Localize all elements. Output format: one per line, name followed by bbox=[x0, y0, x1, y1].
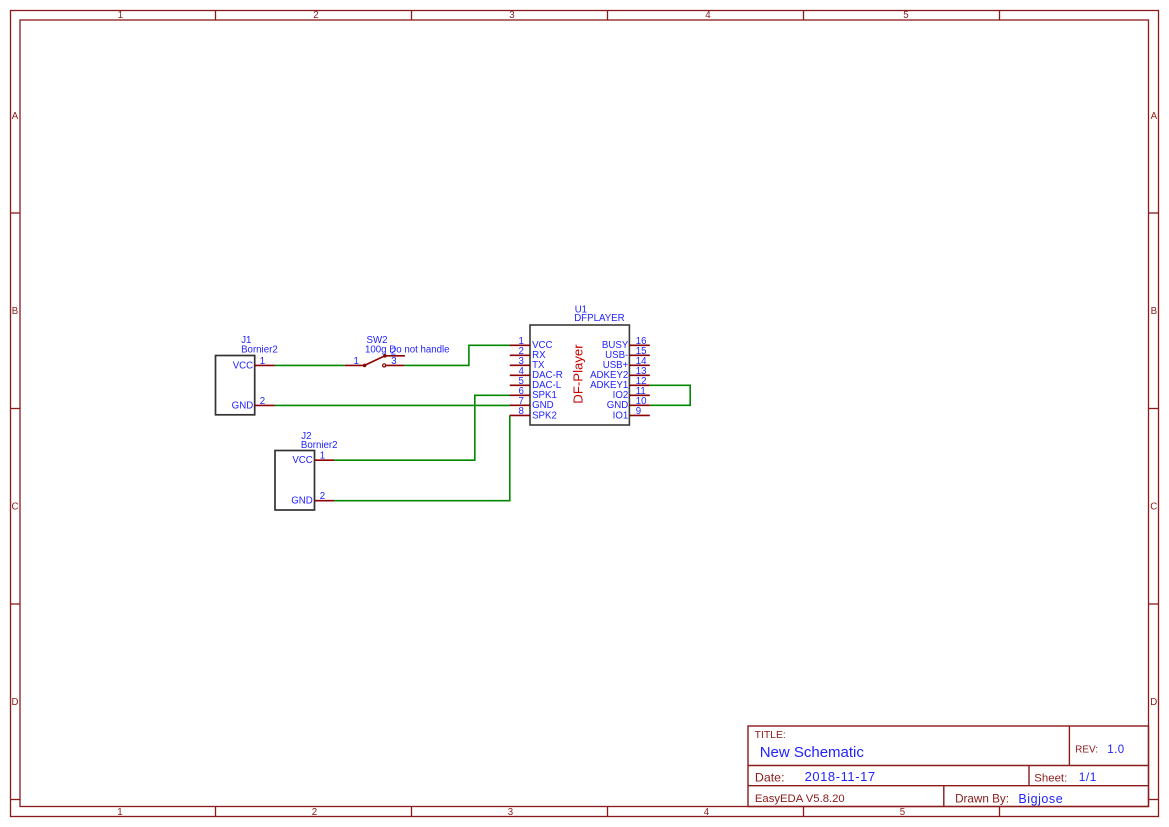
svg-text:TITLE:: TITLE: bbox=[755, 730, 786, 741]
U1 pin 13 stub bbox=[629, 374, 649, 376]
svg-text:A: A bbox=[12, 111, 19, 122]
U1 pin 10 stub bbox=[629, 404, 649, 406]
title block border bbox=[748, 726, 1149, 807]
svg-text:Sheet:: Sheet: bbox=[1034, 773, 1067, 785]
U1 pin 2 stub bbox=[510, 354, 530, 356]
connector J1 body bbox=[216, 356, 255, 415]
frame row letters left bbox=[12, 111, 19, 708]
svg-text:B: B bbox=[1151, 306, 1157, 317]
switch SW2 lever bbox=[365, 356, 385, 366]
svg-text:Bigjose: Bigjose bbox=[1018, 792, 1063, 806]
svg-text:2: 2 bbox=[312, 807, 317, 818]
U1 pin 16 stub bbox=[629, 344, 649, 346]
frame row ticks right bbox=[1149, 213, 1159, 800]
frame row letters right bbox=[1150, 111, 1157, 708]
U1 pin 6 stub bbox=[510, 394, 530, 396]
svg-text:A: A bbox=[1151, 111, 1158, 122]
svg-text:Bornier2: Bornier2 bbox=[241, 345, 278, 356]
svg-text:1: 1 bbox=[320, 451, 325, 462]
svg-text:1/1: 1/1 bbox=[1079, 770, 1097, 784]
switch SW2 pin 3 lead bbox=[386, 364, 405, 366]
svg-text:4: 4 bbox=[704, 807, 710, 818]
svg-text:1: 1 bbox=[354, 356, 359, 367]
svg-text:SPK2: SPK2 bbox=[532, 410, 557, 421]
J2 pin 1 stub bbox=[315, 459, 335, 461]
svg-text:9: 9 bbox=[636, 406, 641, 417]
svg-text:DFPLAYER: DFPLAYER bbox=[574, 313, 624, 324]
svg-text:2018-11-17: 2018-11-17 bbox=[805, 769, 876, 784]
J1 pin 2 stub bbox=[255, 404, 275, 406]
svg-text:1: 1 bbox=[260, 356, 265, 367]
svg-text:C: C bbox=[1150, 501, 1157, 512]
svg-text:Drawn By:: Drawn By: bbox=[955, 793, 1009, 806]
svg-text:EasyEDA V5.8.20: EasyEDA V5.8.20 bbox=[755, 793, 845, 805]
wire U1.12 ADKEY1 to U1.10 GND bbox=[650, 385, 690, 405]
svg-text:5: 5 bbox=[903, 10, 908, 21]
J1 pin 1 stub bbox=[255, 364, 275, 366]
U1 pin 14 stub bbox=[629, 364, 649, 366]
svg-text:4: 4 bbox=[705, 10, 711, 21]
U1 pin 5 stub bbox=[510, 384, 530, 386]
svg-text:2: 2 bbox=[313, 10, 318, 21]
U1 pin 15 stub bbox=[629, 354, 649, 356]
U1 pin 4 stub bbox=[510, 374, 530, 376]
svg-text:3: 3 bbox=[508, 807, 513, 818]
U1 pin 11 stub bbox=[629, 394, 649, 396]
svg-text:8: 8 bbox=[519, 406, 524, 417]
svg-text:D: D bbox=[1150, 697, 1157, 708]
U1 pin 3 stub bbox=[510, 364, 530, 366]
wire J1.2 GND to U1.7 GND bbox=[275, 404, 511, 406]
frame column ticks bottom bbox=[216, 807, 1000, 817]
svg-text:5: 5 bbox=[900, 807, 905, 818]
switch SW2 pin 1 lead bbox=[345, 364, 365, 366]
svg-text:3: 3 bbox=[391, 356, 396, 367]
wire J2.1 VCC to U1.6 SPK1 bbox=[334, 395, 510, 460]
svg-text:IO1: IO1 bbox=[613, 410, 629, 421]
frame column ticks top bbox=[216, 11, 1000, 21]
svg-text:C: C bbox=[12, 501, 19, 512]
IC U1 body bbox=[530, 325, 629, 425]
frame column numbers bottom bbox=[117, 807, 905, 818]
J2 pin 2 stub bbox=[315, 500, 335, 502]
svg-text:REV:: REV: bbox=[1075, 745, 1098, 756]
svg-text:3: 3 bbox=[509, 10, 514, 21]
switch SW2 pin 2 lead bbox=[385, 355, 405, 357]
U1 pin 1 stub bbox=[510, 344, 530, 346]
switch SW2 pin 2 contact dot bbox=[383, 354, 387, 358]
frame row ticks left bbox=[11, 213, 21, 800]
U1 pin 7 stub bbox=[510, 404, 530, 406]
svg-text:New Schematic: New Schematic bbox=[760, 744, 865, 761]
svg-text:1: 1 bbox=[118, 10, 123, 21]
connector J2 body bbox=[275, 451, 315, 511]
svg-text:1: 1 bbox=[117, 807, 122, 818]
svg-text:B: B bbox=[12, 306, 18, 317]
svg-text:2: 2 bbox=[260, 396, 265, 407]
svg-text:GND: GND bbox=[291, 496, 313, 507]
switch SW2 pin 3 contact circle bbox=[383, 364, 386, 367]
svg-text:Date:: Date: bbox=[755, 771, 785, 785]
svg-text:VCC: VCC bbox=[292, 455, 312, 466]
svg-text:DF-Player: DF-Player bbox=[571, 344, 586, 404]
svg-text:GND: GND bbox=[232, 400, 254, 411]
svg-text:D: D bbox=[12, 697, 19, 708]
wire SW2.3 to U1.1 VCC bbox=[404, 345, 510, 365]
switch SW2 common junction dot bbox=[363, 364, 367, 368]
wire J2.2 GND to U1.8 SPK2 bbox=[334, 415, 510, 500]
svg-text:VCC: VCC bbox=[233, 360, 253, 371]
svg-text:2: 2 bbox=[320, 491, 325, 502]
U1 pin 9 stub bbox=[629, 414, 649, 416]
svg-text:Bornier2: Bornier2 bbox=[301, 440, 338, 451]
svg-text:100g Do not handle: 100g Do not handle bbox=[365, 344, 450, 355]
svg-text:1.0: 1.0 bbox=[1107, 744, 1125, 756]
U1 pin 12 stub bbox=[629, 384, 649, 386]
U1 pin 8 stub bbox=[510, 414, 530, 416]
wire J1.1 to SW2.1 bbox=[275, 364, 345, 366]
frame column numbers top bbox=[118, 10, 909, 21]
